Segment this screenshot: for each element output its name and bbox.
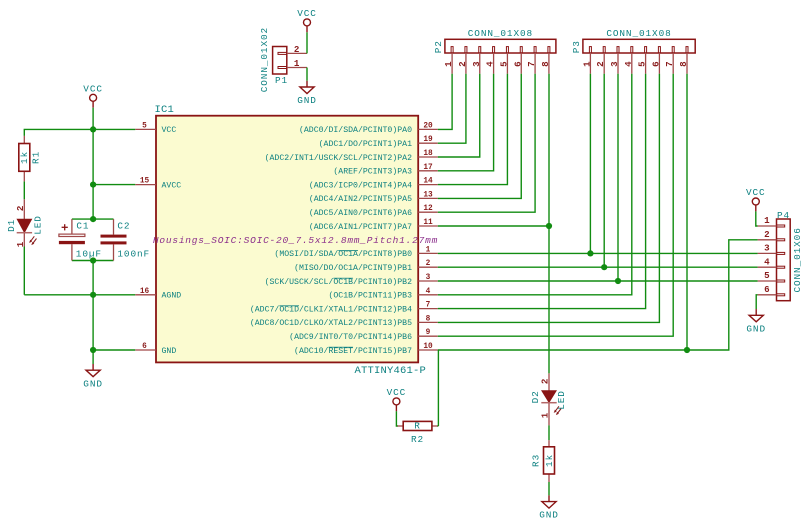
svg-text:10: 10 [423,343,433,351]
svg-text:AGND: AGND [162,292,182,301]
wire AGND row to pin 16 [24,294,135,296]
wire PB2 to P4 pin 5 [438,280,758,282]
svg-text:4: 4 [485,61,496,67]
ground (below P1) [297,81,317,106]
resistor R2 R [398,420,438,445]
IC1 pin 15 AVCC [135,178,181,191]
svg-text:(MISO/DO/OC1A/PCINT9)PB1: (MISO/DO/OC1A/PCINT9)PB1 [294,263,412,273]
svg-text:(AREF/PCINT3)PA3: (AREF/PCINT3)PA3 [333,167,412,177]
svg-text:(ADC7/OC1D/CLKI/XTAL1/PCINT12): (ADC7/OC1D/CLKI/XTAL1/PCINT12)PB4 [250,304,412,314]
svg-text:VCC: VCC [83,84,103,95]
svg-text:P2: P2 [433,40,444,53]
IC1 pin 8 PB5 [250,315,438,328]
svg-text:2: 2 [764,229,770,240]
wire PB3 to P3 pin 4 [438,74,632,295]
node PA7/P2-8/D2 junction [546,223,552,229]
svg-text:P4: P4 [777,210,790,221]
wire AGND row down to GND row [92,295,94,350]
IC1 pin 5 VCC [135,122,176,135]
svg-text:C1: C1 [76,221,89,232]
connector P1 CONN_01X02 [259,27,307,92]
svg-text:(SCK/USCK/SCL/OC1B/PCINT10)PB2: (SCK/USCK/SCL/OC1B/PCINT10)PB2 [265,277,412,287]
wire PA0 to P2 pin 1 [438,74,452,130]
svg-text:Housings_SOIC:SOIC-20_7.5x12.8: Housings_SOIC:SOIC-20_7.5x12.8mm_Pitch1.… [153,235,438,246]
svg-text:R: R [414,420,421,431]
svg-text:16: 16 [140,288,150,296]
svg-text:8: 8 [426,315,431,323]
IC1 pin 12 PA6 [309,205,438,218]
svg-text:P1: P1 [275,75,288,86]
svg-text:8: 8 [678,61,689,67]
IC1 pin 19 PA1 [319,136,438,149]
svg-text:18: 18 [423,150,433,158]
svg-text:1: 1 [426,246,431,254]
wire VCC stem to rail [92,108,94,130]
svg-text:1: 1 [540,412,551,418]
svg-text:LED: LED [33,215,44,235]
wire PB7 (RESET) to P4 pin 2 [438,240,758,350]
svg-text:C2: C2 [117,221,130,232]
svg-text:(ADC4/AIN2/PCINT5)PA5: (ADC4/AIN2/PCINT5)PA5 [309,194,412,204]
svg-text:19: 19 [423,136,433,144]
svg-text:6: 6 [512,61,523,67]
svg-text:VCC: VCC [746,187,766,198]
wire capacitor bottom rail [72,260,114,262]
svg-text:2: 2 [540,379,551,385]
IC1 pin 16 AGND [135,288,181,301]
node cap top junction [90,216,96,222]
power flag VCC (above R2) [387,387,407,411]
node AVCC junction [90,182,96,188]
svg-text:2: 2 [595,61,606,67]
svg-text:12: 12 [423,205,433,213]
wire AVCC row to pin 15 [93,184,135,186]
svg-text:3: 3 [609,61,620,67]
svg-text:GND: GND [297,95,317,106]
wire P3 pin 2 down [603,74,605,267]
svg-text:(ADC10/RESET/PCINT15)PB7: (ADC10/RESET/PCINT15)PB7 [294,346,412,356]
wire VCC to P4 pin 1 [756,211,758,226]
svg-text:2: 2 [15,206,26,212]
svg-text:15: 15 [140,178,150,186]
wire R1 to D1 [23,181,25,199]
wire R3 to ground [548,482,550,495]
power flag VCC (above P4) [746,187,766,211]
wire PA3 to P2 pin 4 [438,74,494,171]
wire P1 pin 1 to ground [306,68,308,81]
IC1 pin 2 PB1 [294,260,438,273]
power flag VCC (top left) [83,84,103,108]
svg-text:6: 6 [650,61,661,67]
IC1 pin 1 PB0 [274,246,437,259]
IC1 pin 11 PA7 [309,219,438,232]
svg-text:3: 3 [471,61,482,67]
svg-text:1: 1 [581,61,592,67]
wire branch to R1 [24,129,93,136]
connector P2 CONN_01X08 [433,28,556,74]
svg-text:1: 1 [764,215,770,226]
svg-text:8: 8 [540,61,551,67]
wire PA7 to P2 pin 8 and down to D2 [438,225,549,227]
connector P3 CONN_01X08 [571,28,695,74]
svg-text:3: 3 [764,243,770,254]
wire PB6 to P3 pin 7 [438,74,673,336]
IC1 pin 3 PB2 [265,274,438,287]
svg-text:5: 5 [764,270,770,281]
svg-text:7: 7 [526,61,537,67]
svg-text:1: 1 [15,241,26,247]
svg-text:20: 20 [423,122,433,130]
svg-text:ATTINY461-P: ATTINY461-P [355,365,427,377]
svg-text:2: 2 [457,61,468,67]
svg-text:CONN_01X08: CONN_01X08 [468,28,533,39]
wire GND row to ground symbol [92,350,94,364]
wire PB0 to P4 pin 3 [438,252,758,254]
wire PB7 tap down to R2 [437,350,439,426]
IC1 pin 7 PB4 [250,302,438,315]
svg-text:GND: GND [746,323,766,334]
wire R2 to PB7 tap [437,425,438,427]
power flag VCC (above P1) [297,8,317,32]
svg-text:VCC: VCC [162,126,177,135]
svg-text:IC1: IC1 [155,104,175,116]
svg-text:10µF: 10µF [76,249,102,260]
wire PB4 to P3 pin 5 [438,74,646,309]
svg-text:4: 4 [426,288,431,296]
wire PA2 to P2 pin 3 [438,74,480,157]
svg-text:100nF: 100nF [117,249,150,260]
svg-text:GND: GND [83,378,103,389]
IC1 pin 4 PB3 [328,288,437,301]
svg-text:LED: LED [556,390,567,410]
wire PA6 to P2 pin 7 [438,74,535,212]
node PB0/P3-1 junction [587,250,593,256]
IC1 pin 6 GND [135,343,176,356]
resistor R1 1k [19,136,42,182]
svg-text:(OC1B/PCINT11)PB3: (OC1B/PCINT11)PB3 [328,291,412,301]
wire PB1 to P4 pin 4 [438,266,758,268]
node AGND row junction [90,292,96,298]
svg-text:7: 7 [426,302,431,310]
wire VCC to P1 pin 2 [306,32,308,53]
svg-text:2: 2 [426,260,431,268]
svg-text:GND: GND [162,347,177,356]
wire P3 pin 1 down [589,74,591,254]
ground (left rail) [83,364,103,389]
ground (below R3) [539,495,559,520]
wire rail down to capacitor top [92,185,94,220]
svg-text:14: 14 [423,178,433,186]
wire D2 to R3 [548,425,550,440]
IC1 pin 18 PA2 [265,150,438,163]
node GND row junction [90,347,96,353]
resistor R3 1k [530,440,555,482]
svg-text:(ADC2/INT1/USCK/SCL/PCINT2)PA2: (ADC2/INT1/USCK/SCL/PCINT2)PA2 [265,153,412,163]
svg-text:6: 6 [142,343,147,351]
IC1 pin 14 PA4 [309,178,438,191]
wire VCC to R2 [396,411,398,426]
svg-text:GND: GND [539,510,559,521]
svg-text:CONN_01X02: CONN_01X02 [259,27,270,92]
svg-text:5: 5 [498,61,509,67]
svg-text:D2: D2 [530,390,541,403]
LED D2 [530,373,567,425]
LED D1 [6,199,43,247]
svg-text:(ADC3/ICP0/PCINT4)PA4: (ADC3/ICP0/PCINT4)PA4 [309,180,412,190]
svg-text:4: 4 [764,256,770,267]
svg-text:(ADC8/OC1D/CLKO/XTAL2/PCINT13): (ADC8/OC1D/CLKO/XTAL2/PCINT13)PB5 [250,318,412,328]
svg-text:CONN_01X06: CONN_01X06 [792,227,803,292]
svg-text:R3: R3 [530,454,541,467]
svg-text:1k: 1k [544,454,555,467]
svg-text:R2: R2 [411,434,424,445]
svg-text:7: 7 [664,61,675,67]
svg-text:9: 9 [426,329,431,337]
wire rail down to AVCC row [92,129,94,184]
svg-text:(ADC0/DI/SDA/PCINT0)PA0: (ADC0/DI/SDA/PCINT0)PA0 [299,125,412,135]
svg-text:11: 11 [423,219,433,227]
svg-text:(ADC5/AIN0/PCINT6)PA6: (ADC5/AIN0/PCINT6)PA6 [309,208,412,218]
svg-text:VCC: VCC [297,8,317,19]
wire PA4 to P2 pin 5 [438,74,508,185]
svg-text:2: 2 [294,44,300,55]
svg-text:17: 17 [423,164,433,172]
wire GND row to pin 6 [93,349,135,351]
svg-text:5: 5 [637,61,648,67]
svg-text:1: 1 [294,58,300,69]
node VCC rail pin5 junction [90,126,96,132]
svg-text:6: 6 [764,284,770,295]
svg-text:VCC: VCC [387,387,407,398]
svg-text:AVCC: AVCC [162,181,182,190]
IC1 pin 13 PA5 [309,191,438,204]
IC1 pin 17 PA3 [333,164,437,177]
ground (below P4) [746,309,766,334]
wire P3 pin 8 down to PB7 [686,74,688,350]
wire PA1 to P2 pin 2 [438,74,466,143]
IC IC1 ATTINY461-P body [153,104,438,377]
node PB1/P3-2 junction [601,264,607,270]
svg-text:5: 5 [142,122,147,130]
svg-text:CONN_01X08: CONN_01X08 [606,28,671,39]
capacitor C1 10uF (polarized) [59,219,102,260]
IC1 pin 10 PB7 [294,343,438,356]
svg-text:13: 13 [423,191,433,199]
svg-text:R1: R1 [31,151,42,164]
wire cap bottom to AGND row [92,261,94,295]
node cap bottom junction [90,257,96,263]
svg-text:4: 4 [623,61,634,67]
connector P4 CONN_01X06 [758,210,803,301]
wire capacitor top rail [72,218,114,220]
svg-text:(ADC1/DO/PCINT1)PA1: (ADC1/DO/PCINT1)PA1 [319,139,412,149]
node PB2/P3-3 junction [615,278,621,284]
svg-text:1: 1 [443,61,454,67]
node PB7/P3-8 junction [684,347,690,353]
wire rail VCC row to pin 5 [93,128,135,130]
wire P4 pin 6 to ground [756,295,757,309]
svg-text:(ADC6/AIN1/PCINT7)PA7: (ADC6/AIN1/PCINT7)PA7 [309,222,412,232]
IC1 pin 9 PB6 [289,329,438,342]
capacitor C2 100nF [101,219,151,260]
wire P3 pin 3 down [617,74,619,281]
svg-text:(ADC9/INT0/T0/PCINT14)PB6: (ADC9/INT0/T0/PCINT14)PB6 [289,332,412,342]
svg-text:3: 3 [426,274,431,282]
svg-text:P3: P3 [571,40,582,53]
svg-text:D1: D1 [6,219,17,232]
wire D1 cathode down to AGND row [23,247,25,295]
svg-text:1k: 1k [19,151,30,164]
wire PB5 to P3 pin 6 [438,74,660,323]
wire PA5 to P2 pin 6 [438,74,521,199]
IC1 pin 20 PA0 [299,122,438,135]
svg-text:(MOSI/DI/SDA/OC1A/PCINT8)PB0: (MOSI/DI/SDA/OC1A/PCINT8)PB0 [274,249,412,259]
